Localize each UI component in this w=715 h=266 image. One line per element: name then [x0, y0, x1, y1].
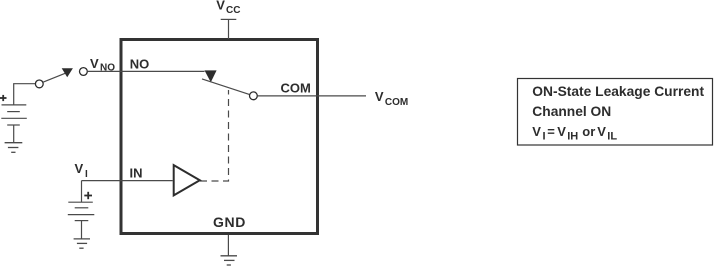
svg-text:COM: COM	[385, 97, 408, 108]
svg-text:GND: GND	[213, 214, 246, 230]
svg-text:ON-State Leakage Current: ON-State Leakage Current	[532, 84, 704, 99]
svg-text:NO: NO	[130, 57, 150, 72]
svg-text:IL: IL	[607, 130, 617, 142]
svg-text:I: I	[543, 130, 546, 142]
svg-text:V: V	[375, 89, 384, 104]
svg-text:or: or	[582, 124, 595, 139]
svg-text:V: V	[75, 161, 84, 176]
svg-text:IH: IH	[567, 130, 578, 142]
svg-text:V: V	[597, 124, 606, 139]
svg-text:Channel ON: Channel ON	[532, 104, 611, 119]
svg-text:V: V	[90, 56, 99, 71]
svg-text:IN: IN	[130, 165, 143, 180]
svg-text:COM: COM	[281, 81, 311, 96]
svg-text:V: V	[532, 124, 541, 139]
svg-text:NO: NO	[100, 63, 115, 74]
svg-text:V: V	[557, 124, 566, 139]
svg-text:=: =	[547, 124, 555, 139]
svg-text:CC: CC	[226, 5, 240, 16]
svg-text:I: I	[85, 169, 88, 180]
svg-text:V: V	[216, 0, 225, 13]
